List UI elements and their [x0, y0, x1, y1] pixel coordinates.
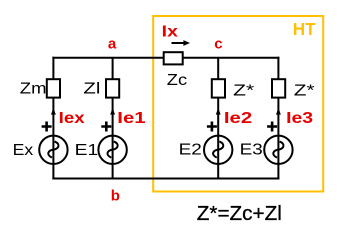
source E3 circle — [264, 136, 292, 164]
svg-text:Zl: Zl — [83, 81, 100, 98]
svg-text:Zc: Zc — [167, 72, 187, 89]
wire top a-c — [52, 57, 279, 59]
svg-text:c: c — [214, 35, 222, 52]
current arrow Ie3 — [276, 108, 281, 115]
svg-text:Ie2: Ie2 — [224, 110, 252, 127]
wire bottom b — [52, 178, 279, 180]
svg-text:Ix: Ix — [162, 23, 178, 40]
svg-text:Ie1: Ie1 — [117, 110, 145, 127]
svg-text:Ie3: Ie3 — [286, 110, 313, 127]
plus sign Ex — [42, 122, 52, 132]
svg-text:Ex: Ex — [13, 142, 34, 159]
wire branch 1 vertical — [52, 57, 54, 180]
current arrow Ie2 — [216, 108, 221, 115]
plus sign E3 — [267, 122, 277, 132]
plus sign E2 — [207, 122, 217, 132]
wire branch 4 vertical — [277, 57, 279, 180]
resistor Zc — [164, 52, 183, 64]
source E2 sine — [213, 141, 223, 157]
source Ex circle — [39, 136, 67, 164]
svg-text:Zm: Zm — [20, 80, 47, 97]
source E2 circle — [204, 136, 232, 164]
source Ex sine — [48, 141, 58, 157]
current arrow Iex — [51, 108, 56, 115]
current arrow Ie1 — [110, 108, 115, 115]
svg-text:Z*: Z* — [294, 82, 315, 99]
resistor Zm — [47, 79, 60, 97]
svg-text:HT: HT — [293, 19, 316, 39]
source E1 sine — [107, 141, 117, 157]
svg-text:E3: E3 — [240, 141, 263, 158]
svg-text:a: a — [108, 35, 117, 52]
plus sign E1 — [101, 122, 111, 132]
resistor Z* second — [272, 79, 285, 97]
svg-text:b: b — [111, 188, 120, 205]
HT boundary box — [153, 16, 323, 192]
svg-text:E1: E1 — [75, 142, 99, 159]
source E3 sine — [273, 141, 283, 157]
wire branch 3 vertical — [217, 58, 219, 179]
svg-text:Z*: Z* — [233, 82, 254, 99]
source E1 circle — [98, 136, 126, 164]
current arrow Ix — [172, 42, 185, 44]
resistor Z* first — [212, 79, 225, 97]
svg-text:Iex: Iex — [59, 110, 85, 127]
svg-text:E2: E2 — [179, 141, 202, 158]
wire branch 2 vertical — [112, 58, 114, 179]
resistor Zl — [106, 79, 119, 97]
svg-text:Z*=Zc+Zl: Z*=Zc+Zl — [197, 203, 282, 225]
